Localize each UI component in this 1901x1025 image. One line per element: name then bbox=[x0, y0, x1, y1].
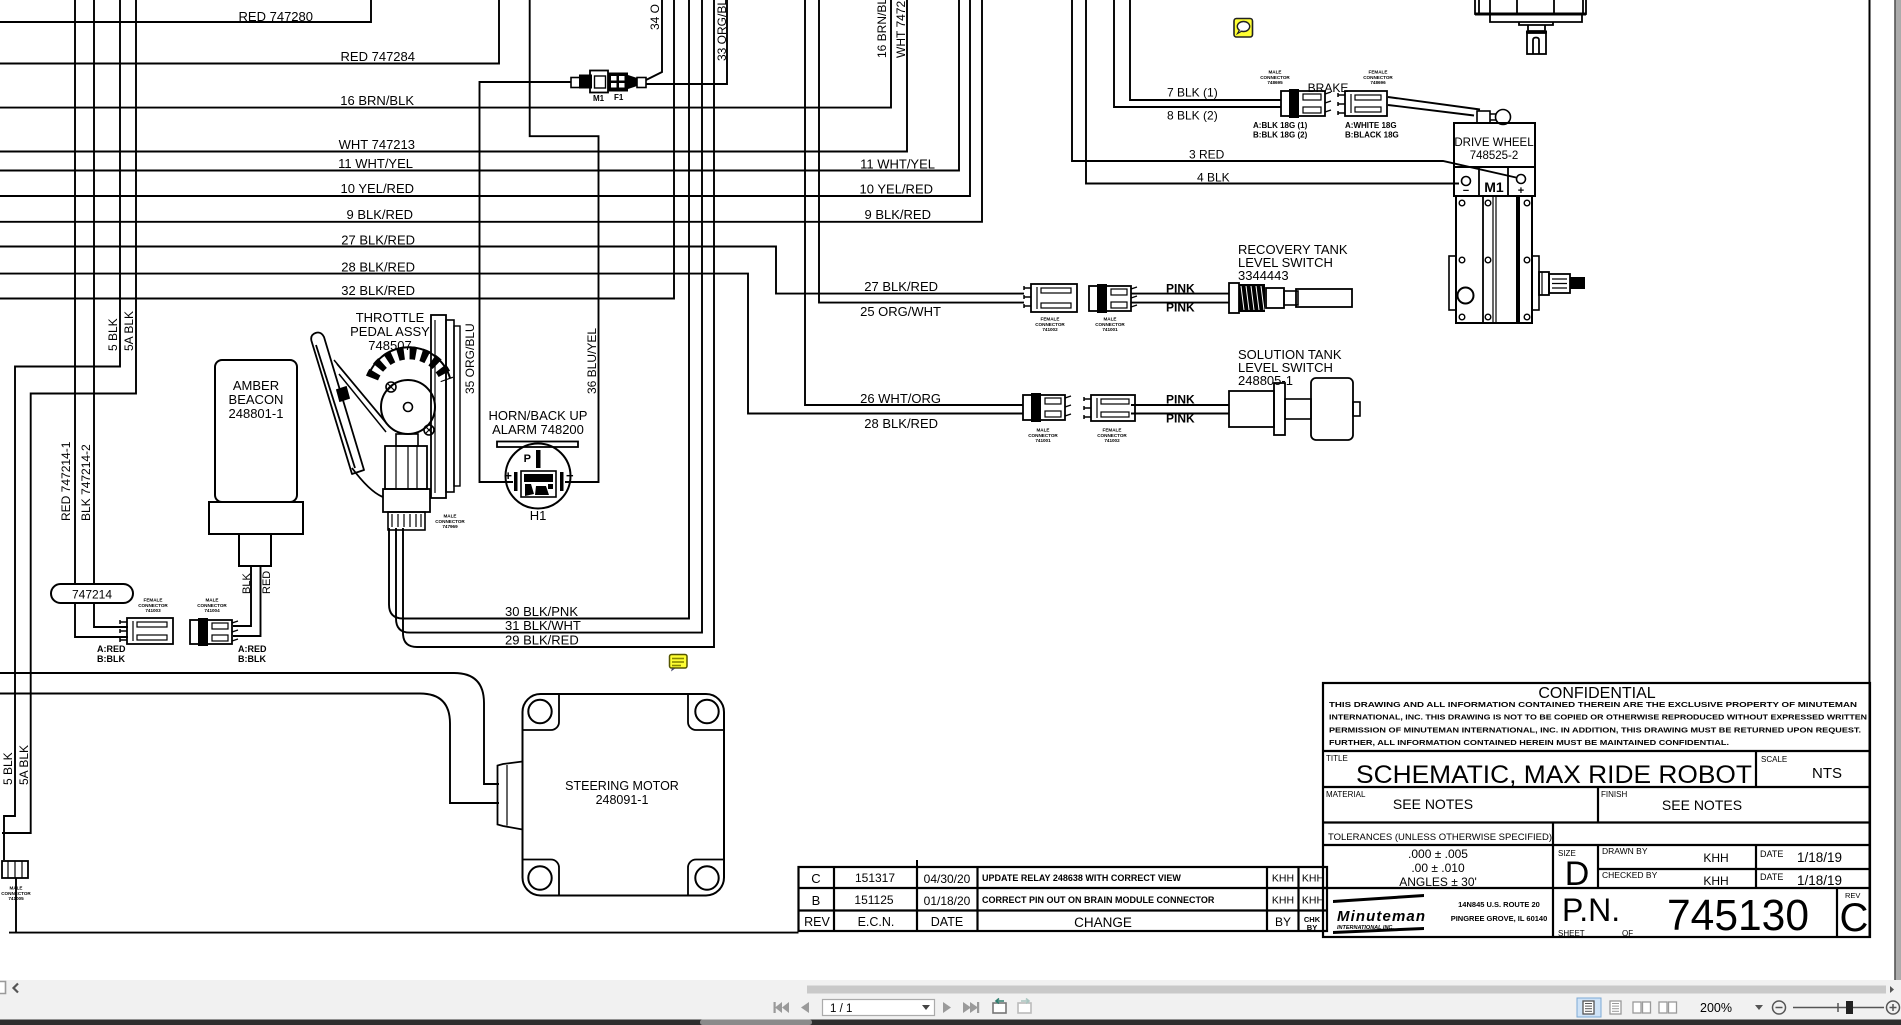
svg-text:ANGLES ± 30': ANGLES ± 30' bbox=[1399, 875, 1477, 889]
svg-text:BY: BY bbox=[1275, 915, 1291, 929]
svg-text:RED 747284: RED 747284 bbox=[341, 49, 415, 64]
svg-text:MALE: MALE bbox=[9, 885, 22, 890]
svg-text:SCALE: SCALE bbox=[1761, 755, 1787, 764]
svg-text:14N845 U.S. ROUTE 20: 14N845 U.S. ROUTE 20 bbox=[1458, 900, 1540, 909]
svg-text:TITLE: TITLE bbox=[1326, 754, 1348, 763]
svg-text:FEMALE: FEMALE bbox=[144, 597, 163, 602]
svg-text:DRAWN BY: DRAWN BY bbox=[1602, 846, 1648, 856]
svg-text:KHH: KHH bbox=[1272, 873, 1294, 885]
svg-text:INTERNATIONAL, INC. THIS DRAWI: INTERNATIONAL, INC. THIS DRAWING IS NOT … bbox=[1329, 713, 1867, 722]
svg-text:28 BLK/RED: 28 BLK/RED bbox=[341, 260, 415, 275]
svg-text:F1: F1 bbox=[614, 93, 624, 102]
svg-text:748695: 748695 bbox=[1267, 80, 1283, 85]
svg-text:B:BLK: B:BLK bbox=[238, 654, 266, 664]
svg-text:PERMISSION OF MINUTEMAN INTERN: PERMISSION OF MINUTEMAN INTERNATIONAL, I… bbox=[1329, 725, 1861, 734]
svg-text:151125: 151125 bbox=[854, 893, 893, 907]
svg-text:CHANGE: CHANGE bbox=[1074, 915, 1132, 930]
svg-text:1/18/19: 1/18/19 bbox=[1797, 873, 1842, 888]
svg-text:32 BLK/RED: 32 BLK/RED bbox=[341, 283, 415, 298]
svg-text:741001: 741001 bbox=[1035, 438, 1051, 443]
svg-text:CONNECTOR: CONNECTOR bbox=[1035, 322, 1065, 327]
svg-text:M1: M1 bbox=[1484, 179, 1504, 195]
svg-text:MATERIAL: MATERIAL bbox=[1326, 790, 1366, 799]
svg-text:DATE: DATE bbox=[931, 915, 963, 929]
svg-text:25 ORG/WHT: 25 ORG/WHT bbox=[860, 304, 941, 319]
svg-text:748696: 748696 bbox=[1370, 80, 1386, 85]
svg-text:5A BLK: 5A BLK bbox=[17, 745, 31, 785]
svg-text:30 BLK/PNK: 30 BLK/PNK bbox=[505, 604, 578, 619]
svg-text:−: − bbox=[566, 468, 574, 483]
svg-text:MALE: MALE bbox=[1103, 316, 1116, 321]
svg-text:29 BLK/RED: 29 BLK/RED bbox=[505, 633, 579, 648]
svg-text:01/18/20: 01/18/20 bbox=[924, 894, 971, 908]
svg-text:CONNECTOR: CONNECTOR bbox=[1097, 433, 1127, 438]
svg-text:MALE: MALE bbox=[443, 513, 456, 518]
svg-text:31 BLK/WHT: 31 BLK/WHT bbox=[505, 618, 581, 633]
svg-text:SEE NOTES: SEE NOTES bbox=[1393, 796, 1473, 812]
svg-text:ALARM 748200: ALARM 748200 bbox=[492, 422, 584, 437]
svg-text:KHH: KHH bbox=[1703, 874, 1728, 888]
svg-text:CONNECTOR: CONNECTOR bbox=[435, 519, 465, 524]
svg-text:741005: 741005 bbox=[8, 896, 24, 901]
svg-text:151317: 151317 bbox=[855, 871, 895, 885]
svg-text:A:RED: A:RED bbox=[97, 644, 126, 654]
svg-text:DATE: DATE bbox=[1760, 872, 1783, 882]
svg-text:FEMALE: FEMALE bbox=[1103, 427, 1122, 432]
svg-text:CONNECTOR: CONNECTOR bbox=[1363, 75, 1393, 80]
svg-text:PINGREE GROVE, IL 60140: PINGREE GROVE, IL 60140 bbox=[1451, 914, 1548, 923]
svg-text:741004: 741004 bbox=[204, 608, 220, 613]
svg-text:BLK: BLK bbox=[241, 573, 253, 594]
svg-text:MALE: MALE bbox=[1036, 427, 1049, 432]
svg-text:SEE NOTES: SEE NOTES bbox=[1662, 797, 1742, 813]
svg-text:36 BLU/YEL: 36 BLU/YEL bbox=[585, 328, 599, 394]
svg-text:747214: 747214 bbox=[72, 588, 112, 602]
svg-text:1 / 1: 1 / 1 bbox=[830, 1003, 852, 1015]
svg-text:1/18/19: 1/18/19 bbox=[1797, 850, 1842, 865]
svg-text:3344443: 3344443 bbox=[1238, 268, 1289, 283]
svg-text:4 BLK: 4 BLK bbox=[1197, 171, 1230, 185]
svg-text:741002: 741002 bbox=[1042, 327, 1058, 332]
svg-text:CONNECTOR: CONNECTOR bbox=[1260, 75, 1290, 80]
svg-text:B:BLACK 18G: B:BLACK 18G bbox=[1345, 131, 1399, 140]
svg-text:9 BLK/RED: 9 BLK/RED bbox=[347, 207, 413, 222]
svg-text:741001: 741001 bbox=[1102, 327, 1118, 332]
svg-text:10 YEL/RED: 10 YEL/RED bbox=[860, 182, 933, 197]
svg-text:PINK: PINK bbox=[1166, 301, 1195, 315]
svg-text:KHH: KHH bbox=[1302, 895, 1324, 907]
svg-text:A:WHITE 18G: A:WHITE 18G bbox=[1345, 121, 1397, 130]
svg-text:3 RED: 3 RED bbox=[1189, 148, 1225, 162]
svg-text:P: P bbox=[524, 453, 531, 465]
svg-text:33 ORG/BLU: 33 ORG/BLU bbox=[715, 0, 729, 61]
svg-text:DRIVE WHEEL: DRIVE WHEEL bbox=[1454, 137, 1534, 149]
svg-text:KHH: KHH bbox=[1703, 851, 1728, 865]
svg-text:C: C bbox=[1840, 896, 1869, 940]
svg-text:SCHEMATIC, MAX RIDE ROBOT: SCHEMATIC, MAX RIDE ROBOT bbox=[1356, 761, 1752, 789]
svg-text:28 BLK/RED: 28 BLK/RED bbox=[864, 416, 938, 431]
svg-text:.000 ± .005: .000 ± .005 bbox=[1408, 847, 1468, 861]
svg-text:BLK 747214-2: BLK 747214-2 bbox=[79, 444, 93, 521]
svg-text:35 ORG/BLU: 35 ORG/BLU bbox=[463, 323, 477, 394]
svg-text:REV: REV bbox=[804, 915, 830, 929]
svg-text:PINK: PINK bbox=[1166, 393, 1195, 407]
svg-text:11 WHT/YEL: 11 WHT/YEL bbox=[338, 156, 413, 171]
svg-text:A:BLK 18G (1): A:BLK 18G (1) bbox=[1253, 121, 1308, 130]
svg-text:CONNECTOR: CONNECTOR bbox=[1, 891, 31, 896]
svg-text:741003: 741003 bbox=[145, 608, 161, 613]
svg-text:10 YEL/RED: 10 YEL/RED bbox=[341, 181, 414, 196]
svg-text:D: D bbox=[1565, 855, 1590, 893]
svg-text:5 BLK: 5 BLK bbox=[1, 752, 15, 785]
svg-text:9 BLK/RED: 9 BLK/RED bbox=[865, 207, 931, 222]
svg-text:16 BRN/BL: 16 BRN/BL bbox=[875, 0, 889, 58]
svg-text:200%: 200% bbox=[1700, 1001, 1732, 1015]
svg-text:B: B bbox=[812, 893, 821, 908]
svg-text:CONNECTOR: CONNECTOR bbox=[197, 603, 227, 608]
svg-text:DATE: DATE bbox=[1760, 849, 1783, 859]
svg-text:MALE: MALE bbox=[1268, 69, 1281, 74]
svg-text:.00 ± .010: .00 ± .010 bbox=[1411, 861, 1465, 875]
svg-text:RED 747280: RED 747280 bbox=[239, 9, 313, 24]
svg-text:PINK: PINK bbox=[1166, 412, 1195, 426]
svg-text:FEMALE: FEMALE bbox=[1369, 69, 1388, 74]
svg-text:34 O: 34 O bbox=[648, 4, 662, 30]
svg-text:8 BLK (2): 8 BLK (2) bbox=[1167, 109, 1218, 123]
svg-text:+: + bbox=[504, 468, 512, 483]
svg-text:26 WHT/ORG: 26 WHT/ORG bbox=[860, 391, 941, 406]
svg-text:CHECKED BY: CHECKED BY bbox=[1602, 870, 1658, 880]
svg-text:27 BLK/RED: 27 BLK/RED bbox=[864, 279, 938, 294]
svg-text:FEMALE: FEMALE bbox=[1041, 316, 1060, 321]
svg-text:748525-2: 748525-2 bbox=[1470, 150, 1519, 162]
svg-text:CONNECTOR: CONNECTOR bbox=[138, 603, 168, 608]
svg-text:RED 747214-1: RED 747214-1 bbox=[59, 441, 73, 521]
svg-text:BEACON: BEACON bbox=[229, 392, 284, 407]
svg-text:FINISH: FINISH bbox=[1601, 790, 1627, 799]
svg-text:SHEET: SHEET bbox=[1558, 929, 1585, 938]
svg-text:11 WHT/YEL: 11 WHT/YEL bbox=[860, 157, 935, 172]
svg-text:NTS: NTS bbox=[1812, 765, 1842, 782]
svg-text:H1: H1 bbox=[530, 508, 547, 523]
svg-text:CONNECTOR: CONNECTOR bbox=[1095, 322, 1125, 327]
svg-text:5A BLK: 5A BLK bbox=[122, 311, 136, 351]
svg-text:WHT 74721: WHT 74721 bbox=[894, 0, 908, 58]
svg-text:741002: 741002 bbox=[1104, 438, 1120, 443]
svg-text:Minuteman: Minuteman bbox=[1337, 908, 1425, 925]
svg-text:745130: 745130 bbox=[1667, 891, 1809, 940]
svg-text:27 BLK/RED: 27 BLK/RED bbox=[341, 233, 415, 248]
svg-text:AMBER: AMBER bbox=[233, 378, 279, 393]
svg-text:16 BRN/BLK: 16 BRN/BLK bbox=[340, 93, 414, 108]
svg-text:C: C bbox=[811, 871, 820, 886]
svg-text:BY: BY bbox=[1307, 923, 1317, 932]
svg-text:OF: OF bbox=[1622, 929, 1633, 938]
svg-text:A:RED: A:RED bbox=[238, 644, 267, 654]
svg-text:THROTTLE: THROTTLE bbox=[356, 310, 425, 325]
svg-text:7 BLK (1): 7 BLK (1) bbox=[1167, 86, 1218, 100]
svg-text:248091-1: 248091-1 bbox=[596, 793, 649, 807]
svg-text:MALE: MALE bbox=[205, 597, 218, 602]
svg-text:FURTHER, ALL INFORMATION CONTA: FURTHER, ALL INFORMATION CONTAINED HEREI… bbox=[1329, 738, 1729, 747]
svg-text:B:BLK: B:BLK bbox=[97, 654, 125, 664]
svg-text:P.N.: P.N. bbox=[1562, 892, 1620, 928]
svg-text:PINK: PINK bbox=[1166, 282, 1195, 296]
svg-text:5 BLK: 5 BLK bbox=[106, 318, 120, 351]
svg-text:STEERING MOTOR: STEERING MOTOR bbox=[565, 779, 679, 793]
svg-text:248801-1: 248801-1 bbox=[229, 406, 284, 421]
svg-text:747969: 747969 bbox=[442, 524, 458, 529]
svg-text:M1: M1 bbox=[593, 94, 605, 103]
svg-text:KHH: KHH bbox=[1272, 895, 1294, 907]
svg-text:HORN/BACK UP: HORN/BACK UP bbox=[489, 408, 588, 423]
svg-text:E.C.N.: E.C.N. bbox=[858, 915, 895, 929]
svg-text:THIS DRAWING AND ALL INFORMATI: THIS DRAWING AND ALL INFORMATION CONTAIN… bbox=[1329, 700, 1857, 709]
svg-text:PEDAL ASSY: PEDAL ASSY bbox=[350, 324, 430, 339]
svg-text:TOLERANCES (UNLESS OTHERWISE S: TOLERANCES (UNLESS OTHERWISE SPECIFIED) bbox=[1328, 832, 1552, 843]
svg-text:04/30/20: 04/30/20 bbox=[924, 872, 971, 886]
svg-text:RED: RED bbox=[261, 571, 273, 594]
svg-text:WHT 747213: WHT 747213 bbox=[339, 137, 415, 152]
svg-text:B:BLK 18G (2): B:BLK 18G (2) bbox=[1253, 131, 1308, 140]
svg-text:UPDATE RELAY 248638 WITH CORRE: UPDATE RELAY 248638 WITH CORRECT VIEW bbox=[982, 873, 1181, 883]
svg-text:CORRECT PIN OUT ON BRAIN MODUL: CORRECT PIN OUT ON BRAIN MODULE CONNECTO… bbox=[982, 895, 1215, 905]
svg-text:CONNECTOR: CONNECTOR bbox=[1028, 433, 1058, 438]
svg-text:KHH: KHH bbox=[1302, 873, 1324, 885]
